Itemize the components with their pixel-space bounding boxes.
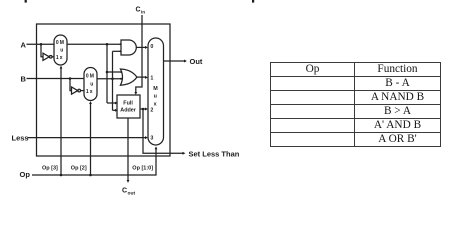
label Op [20,170,31,179]
svg-text:Less: Less [12,134,29,143]
node a to OR junction [106,71,109,74]
svg-text:C: C [136,7,141,14]
input label B [21,75,27,84]
wire mux M1 output (a) to AND gate [67,43,121,45]
label Op [1:0] [132,165,153,171]
svg-text:Out: Out [190,57,203,66]
node B branch junction [69,77,72,80]
node Op tap for Op[3] [60,174,63,177]
AND gate G3 [121,40,136,55]
node a bus junction [106,43,109,46]
svg-text:Op [1:0]: Op [1:0] [132,165,153,171]
svg-text:x: x [154,102,157,108]
wire mux M3 output Out [164,60,187,63]
input label Less [12,134,29,143]
mux M2 (B / B') [84,68,97,101]
svg-text:u: u [154,94,157,100]
svg-text:2: 2 [150,107,153,113]
label Set Less Than [189,149,240,158]
wire Op bus [32,146,157,175]
node Op tap for Op[2] [89,174,92,177]
text descender fragment top-middle [252,0,254,3]
wire b bus vertical [112,51,114,110]
svg-text:0: 0 [56,40,59,46]
svg-text:Adder: Adder [120,108,136,114]
svg-text:u: u [60,48,63,54]
wire adder sum to mux input 2 [140,108,148,111]
wire AND output to mux input 0 [136,46,148,49]
node sum / set junction [142,108,145,111]
svg-text:1: 1 [150,75,153,81]
svg-text:x: x [90,89,93,95]
wire carry-out down [127,118,130,183]
function table [270,62,441,147]
wire mux M2 output (b) to OR gate [97,78,122,80]
text descender fragment top-left [25,0,27,3]
wire OR output to mux input 1 [137,76,148,79]
svg-text:M: M [60,40,64,46]
label Op [3] [42,165,58,171]
wire A to inverter G1 [41,44,43,57]
label Op [2] [71,165,87,171]
svg-text:M: M [90,74,94,80]
node A branch junction [40,43,43,46]
full adder U1 [117,95,140,118]
svg-text:1: 1 [86,89,89,95]
ALU enclosure box [37,24,171,156]
label Cin [136,7,146,15]
wire b to AND gate input 2 [113,50,122,52]
svg-text:1: 1 [56,55,59,61]
node b bus junction [111,78,114,81]
wire B to inverter G2 [70,79,72,91]
svg-text:0: 0 [86,74,89,80]
svg-text:Op: Op [20,170,31,179]
svg-text:C: C [122,188,127,195]
wire Op[2] select to mux M2 [89,101,92,175]
mux M1 (A / A') [54,35,67,65]
svg-text:A: A [21,41,27,50]
wire a to OR gate input 1 [107,71,122,73]
wire Less to mux input 3 [28,136,148,139]
svg-text:x: x [60,55,63,61]
wire a to full adder input, arrow [107,102,118,105]
svg-text:Set Less Than: Set Less Than [189,149,240,158]
node AND input 1 contact [120,43,122,45]
mux M3 (result select) [148,38,164,145]
label Cout [122,188,135,197]
inverter G2 (B invert) [72,87,85,94]
input label A [21,41,27,50]
wire Op[3] select to mux M1 [60,66,63,175]
svg-text:out: out [128,190,136,196]
svg-text:3: 3 [150,136,153,142]
inverter G1 (A invert) [43,53,54,60]
wire carry-in into full adder [134,15,142,95]
wire a bus vertical [106,44,108,103]
OR gate G4 [120,69,137,85]
wire A input [27,43,55,45]
svg-text:Op [2]: Op [2] [71,165,87,171]
wire set less than [143,109,185,155]
wire b to full adder input, arrow [113,109,118,112]
svg-text:B: B [21,75,27,84]
svg-text:in: in [141,9,145,14]
svg-text:M: M [153,86,158,92]
label Out [190,57,203,66]
svg-text:0: 0 [150,44,153,50]
wire B input [27,78,85,80]
svg-text:u: u [90,81,93,87]
svg-text:Op [3]: Op [3] [42,165,58,171]
svg-text:Full: Full [123,101,133,107]
